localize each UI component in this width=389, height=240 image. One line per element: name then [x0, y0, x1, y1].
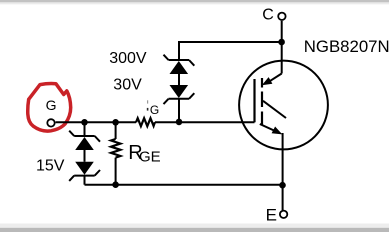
zener D1 300V (cathode up)	[164, 55, 195, 74]
svg-text:C: C	[262, 7, 274, 24]
Q1 body circle	[239, 61, 328, 150]
svg-text:E: E	[266, 206, 277, 225]
label RG	[148, 100, 160, 117]
wire: bottom rail	[85, 184, 283, 186]
wire: emitter lead down to terminal E	[282, 133, 284, 210]
node: gate/zener junction	[176, 119, 183, 126]
terminal C	[262, 7, 285, 42]
wire: D2 cathode down to gate rail	[178, 99, 180, 123]
Q1 collector lead with arrow into channel	[270, 74, 282, 82]
zener D3 15V upper (cathode up)	[69, 122, 100, 150]
zener D4 15V lower (cathode down)	[69, 162, 100, 185]
Q1 emitter lead with arrow	[260, 124, 274, 131]
node: collector junction	[278, 39, 285, 46]
node: 15V zener top junction	[81, 119, 88, 126]
svg-text:G: G	[46, 97, 57, 113]
node: RGE bottom junction	[112, 181, 119, 188]
transistor Q1 NGB8207N (IGBT)	[239, 61, 328, 150]
label RGE	[128, 142, 160, 166]
zener D2 30V (cathode down)	[164, 85, 195, 104]
Q1 gate bar	[253, 79, 255, 122]
wire: top rail from zener string to collector node	[179, 42, 282, 60]
svg-text:300V: 300V	[109, 50, 147, 67]
node: RGE top junction	[112, 119, 119, 126]
resistor RG (gate resistor, zigzag)	[136, 118, 155, 126]
svg-text:30V: 30V	[113, 77, 142, 94]
svg-text:GE: GE	[139, 149, 161, 166]
wire: gate rail resistor to IGBT gate	[155, 121, 255, 123]
terminal G	[46, 97, 57, 127]
Q1 middle diagonal	[263, 101, 286, 118]
wire: between 15V zeners	[84, 150, 86, 162]
svg-text:NGB8207N: NGB8207N	[304, 37, 389, 56]
terminal E	[266, 206, 288, 225]
svg-text:G: G	[150, 103, 159, 117]
svg-text:15V: 15V	[36, 157, 65, 174]
wire: gate rail G terminal to resistor	[56, 121, 136, 123]
node: emitter junction	[279, 182, 286, 189]
annotation: red hand-drawn circle around G with arrow tip	[28, 83, 71, 131]
wire: between D1 and D2 anodes	[178, 74, 180, 85]
wire: collector node down to IGBT	[281, 42, 283, 74]
resistor RGE (vertical zigzag)	[111, 122, 120, 184]
Q1 channel dashed bar	[261, 78, 263, 125]
